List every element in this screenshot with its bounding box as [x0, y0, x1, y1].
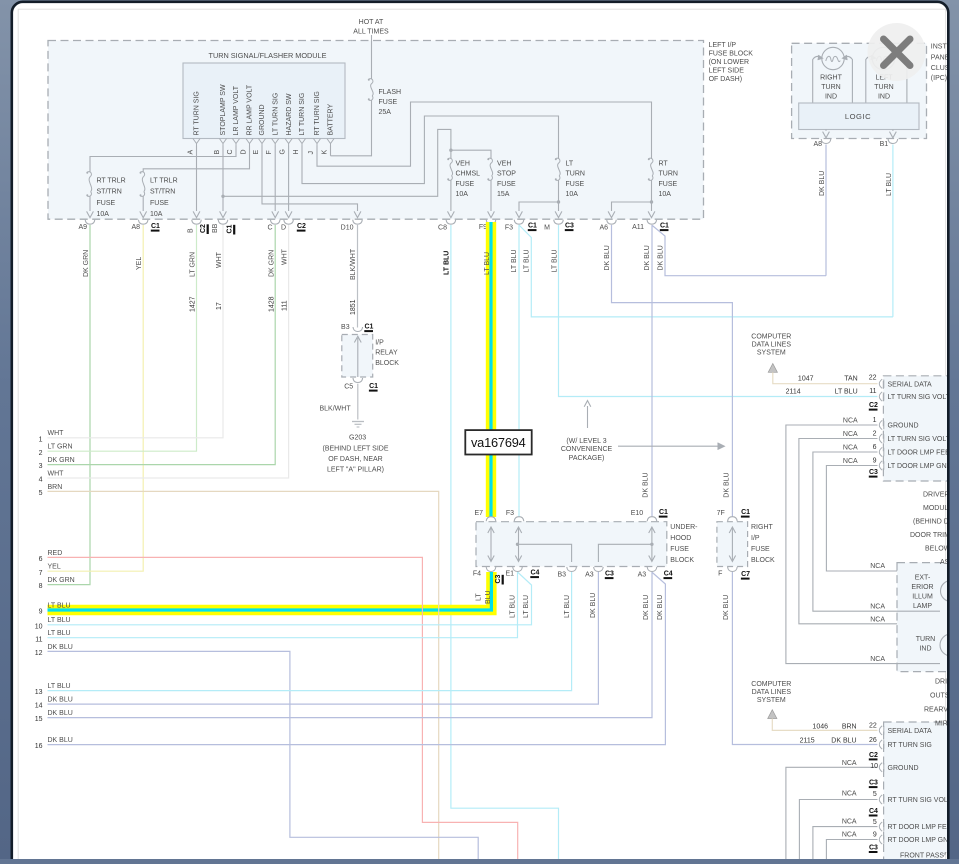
svg-text:LT GRN: LT GRN: [190, 252, 197, 277]
svg-text:1: 1: [873, 417, 877, 424]
svg-text:FUSE: FUSE: [659, 181, 678, 188]
svg-text:GROUND: GROUND: [888, 765, 919, 772]
svg-text:YEL: YEL: [48, 564, 61, 571]
svg-text:LOGIC: LOGIC: [845, 112, 871, 121]
wire BRN 1046: [772, 719, 877, 731]
svg-text:2115: 2115: [800, 738, 815, 745]
svg-text:SERIAL DATA: SERIAL DATA: [888, 728, 933, 735]
svg-text:GROUND: GROUND: [259, 104, 266, 135]
svg-text:LEFT SIDE: LEFT SIDE: [709, 68, 745, 75]
svg-text:1: 1: [39, 436, 43, 443]
ground symbol G203: [352, 421, 364, 423]
wire pin B to connector BB and fuse feed bus: [222, 146, 224, 212]
svg-text:8: 8: [39, 583, 43, 590]
svg-text:M: M: [544, 225, 550, 232]
svg-text:FUSE: FUSE: [456, 181, 475, 188]
wire DK BLU from A11 to underhood E10: [651, 225, 653, 517]
svg-text:RIGHT: RIGHT: [820, 75, 843, 82]
svg-text:DK BLU: DK BLU: [48, 697, 73, 704]
svg-text:NCA: NCA: [843, 445, 858, 452]
fuse VEH CHMSL FUSE 10A: [450, 150, 452, 158]
IPC connector box upper: [883, 376, 953, 481]
svg-text:D10: D10: [341, 225, 354, 232]
svg-text:EXT-: EXT-: [915, 575, 931, 582]
svg-text:DK BLU: DK BLU: [48, 737, 73, 744]
fuse LT TRLR ST/TRN FUSE 10A: [140, 172, 144, 177]
svg-text:DATA LINES: DATA LINES: [752, 689, 792, 696]
svg-text:4: 4: [39, 477, 43, 484]
svg-text:11: 11: [869, 388, 876, 395]
LOGIC box: [799, 103, 919, 130]
svg-text:LT TURN SIG VOLTS: LT TURN SIG VOLTS: [888, 436, 955, 443]
svg-text:BATTERY: BATTERY: [328, 104, 335, 136]
internal link F3-E1 line to B3: [518, 544, 572, 562]
wire pin H to LT TURN fuse: [302, 116, 559, 184]
close button: [868, 23, 926, 81]
svg-text:NCA: NCA: [842, 819, 857, 826]
underhood fuse block dashed box: [476, 522, 667, 567]
svg-text:OF DASH, NEAR: OF DASH, NEAR: [328, 456, 382, 463]
svg-text:5: 5: [39, 490, 43, 497]
svg-text:B3: B3: [341, 324, 350, 331]
svg-text:HOT AT: HOT AT: [359, 19, 384, 26]
svg-text:LT BLU: LT BLU: [510, 595, 517, 618]
wire BLK/WHT relay to ground: [357, 384, 359, 420]
svg-text:C2: C2: [869, 402, 878, 409]
svg-text:12: 12: [35, 650, 43, 657]
svg-text:DOOR TRIM: DOOR TRIM: [910, 532, 950, 539]
wire feed to VEH STOP fuse: [451, 150, 491, 159]
svg-text:OF DASH): OF DASH): [709, 76, 742, 83]
wire BLK/WHT 1851 from D10 to relay block: [357, 225, 359, 328]
svg-text:RT DOOR LMP FEED: RT DOOR LMP FEED: [888, 824, 957, 831]
wire YEL from A8 to row 7: [48, 225, 144, 571]
svg-text:RED: RED: [48, 550, 63, 557]
svg-text:DK BLU: DK BLU: [644, 245, 651, 270]
svg-text:DK BLU: DK BLU: [831, 738, 856, 745]
svg-text:2114: 2114: [786, 389, 801, 396]
svg-text:1851: 1851: [350, 299, 357, 315]
svg-text:7F: 7F: [717, 510, 725, 517]
svg-text:CHMSL: CHMSL: [456, 171, 481, 178]
svg-text:10A: 10A: [456, 191, 469, 198]
svg-text:26: 26: [869, 737, 877, 744]
wire DK BLU from F/C7 to pin 26: [732, 572, 877, 745]
svg-text:DK BLU: DK BLU: [604, 245, 611, 270]
svg-text:WHT: WHT: [48, 430, 65, 437]
connector row hooks: [85, 220, 95, 225]
svg-text:9: 9: [873, 832, 877, 839]
svg-text:10A: 10A: [566, 191, 579, 198]
svg-text:(IPC): (IPC): [931, 75, 947, 82]
wire RT TURN fuse to A6 and A11: [651, 180, 653, 211]
wire RED row 6 continuation off page: [48, 557, 518, 860]
svg-text:C4: C4: [664, 571, 673, 578]
svg-text:1047: 1047: [798, 376, 814, 383]
svg-text:RT DOOR LMP GND: RT DOOR LMP GND: [888, 837, 954, 844]
svg-text:E7: E7: [474, 510, 483, 517]
svg-text:DK BLU: DK BLU: [658, 245, 665, 270]
svg-text:NCA: NCA: [870, 604, 885, 611]
svg-text:TURN: TURN: [874, 84, 893, 91]
svg-text:14: 14: [35, 703, 43, 710]
svg-text:BELOW: BELOW: [925, 545, 951, 552]
wire hot-at-all-times to flash fuse: [371, 35, 373, 79]
wire pin F to connector C: [274, 146, 276, 212]
svg-text:IND: IND: [919, 646, 931, 653]
wire DK BLU row 15 from A3: [48, 572, 653, 718]
svg-text:RT TURN SIG VOLTS: RT TURN SIG VOLTS: [888, 797, 957, 804]
svg-text:C2: C2: [200, 224, 207, 233]
svg-text:RT TRLR: RT TRLR: [97, 177, 126, 184]
svg-text:LEFT I/P: LEFT I/P: [709, 42, 737, 49]
lamp RIGHT TURN IND: [822, 47, 844, 69]
svg-text:NCA: NCA: [843, 458, 858, 465]
svg-text:LT BLU: LT BLU: [48, 617, 71, 624]
va167694 label box: [465, 430, 531, 454]
svg-text:DK GRN: DK GRN: [83, 250, 90, 277]
svg-text:RT: RT: [659, 160, 669, 167]
svg-text:15A: 15A: [497, 191, 510, 198]
svg-text:FUSE: FUSE: [379, 99, 398, 106]
driver mirror module connector box lower: [884, 722, 954, 864]
wire DK BLU row 12 continuation off page: [48, 651, 479, 860]
fuse VEH STOP FUSE 15A: [488, 158, 492, 163]
svg-text:LT BLU: LT BLU: [564, 595, 571, 618]
svg-text:DK BLU: DK BLU: [643, 472, 650, 497]
svg-text:RT TURN SIG: RT TURN SIG: [888, 742, 932, 749]
svg-text:C1: C1: [741, 509, 750, 516]
svg-text:NCA: NCA: [842, 832, 857, 839]
svg-text:LT: LT: [475, 593, 482, 601]
IPC upper connector rows: [879, 379, 882, 388]
svg-text:LT BLU: LT BLU: [484, 252, 491, 275]
wire RT TRLR fuse to A9: [89, 196, 91, 211]
svg-text:11: 11: [35, 636, 42, 643]
svg-text:FUSE: FUSE: [497, 181, 516, 188]
svg-text:10A: 10A: [97, 211, 110, 218]
svg-text:VEH: VEH: [456, 160, 470, 167]
svg-text:BRN: BRN: [48, 484, 63, 491]
svg-text:E: E: [253, 150, 260, 155]
underhood bottom hooks: [486, 567, 496, 572]
svg-text:IND: IND: [825, 94, 837, 101]
svg-text:H: H: [293, 149, 300, 154]
svg-text:C2: C2: [297, 223, 306, 230]
wire stoplamp feed bus B to VEH fuses: [223, 129, 451, 196]
svg-text:B: B: [188, 228, 195, 233]
wire pin E to D10: [262, 146, 358, 212]
wire DK BLU row 16 from C4: [48, 573, 666, 745]
svg-text:DK BLU: DK BLU: [657, 595, 664, 620]
svg-text:VEH: VEH: [497, 160, 511, 167]
svg-text:C5: C5: [344, 384, 353, 391]
svg-text:FLASH: FLASH: [379, 89, 402, 96]
svg-text:LT BLU: LT BLU: [523, 595, 530, 618]
wire RT TRLR fuse feed from pin C: [90, 146, 236, 173]
svg-text:LT TRLR: LT TRLR: [150, 177, 178, 184]
svg-text:WHT: WHT: [48, 470, 65, 477]
wire LT BLU row 13 from B3: [48, 572, 572, 691]
svg-text:LR LAMP VOLT: LR LAMP VOLT: [233, 85, 240, 135]
svg-text:10A: 10A: [150, 211, 163, 218]
wire WHT 111 from D to row 4: [48, 225, 289, 478]
svg-text:LT DOOR LMP FEED: LT DOOR LMP FEED: [888, 450, 955, 457]
svg-text:DK GRN: DK GRN: [269, 250, 276, 277]
wire LT BLU from F3/C1 to underhood F3: [518, 225, 520, 517]
svg-text:LT BLU: LT BLU: [524, 249, 531, 272]
wire TAN 1047: [773, 372, 878, 383]
svg-text:E10: E10: [631, 510, 644, 517]
svg-text:6: 6: [873, 444, 877, 451]
wire LT BLU row 10 from E1: [48, 572, 532, 625]
svg-text:6: 6: [39, 556, 43, 563]
svg-text:F: F: [718, 571, 722, 578]
svg-text:5: 5: [873, 791, 877, 798]
svg-text:9: 9: [39, 609, 43, 616]
svg-text:TAN: TAN: [844, 376, 857, 383]
svg-text:COMPUTER: COMPUTER: [751, 681, 791, 688]
svg-text:GROUND: GROUND: [888, 423, 919, 430]
wire LT BLU from F3/C1 to B1 left turn ind: [519, 225, 893, 317]
svg-text:A: A: [187, 150, 194, 155]
wire pin K to battery bus: [330, 146, 332, 156]
svg-text:TURN: TURN: [659, 171, 678, 178]
wire DK BLU row 14 from A3: [48, 572, 599, 704]
left I/P fuse block dashed box: [48, 41, 704, 220]
svg-text:F4: F4: [473, 571, 481, 578]
svg-text:BLK/WHT: BLK/WHT: [350, 248, 357, 280]
svg-text:C1: C1: [365, 324, 374, 331]
svg-text:F: F: [266, 150, 273, 154]
svg-text:(ON LOWER: (ON LOWER: [709, 59, 749, 66]
highlighted wire core F9 to E7: [489, 222, 492, 517]
svg-text:SERIAL DATA: SERIAL DATA: [888, 381, 933, 388]
wire LT TURN fuse to F3 and M: [558, 180, 560, 211]
svg-text:ERIOR: ERIOR: [911, 584, 933, 591]
svg-text:C1: C1: [660, 223, 669, 230]
svg-text:BRN: BRN: [842, 724, 857, 731]
svg-text:LT BLU: LT BLU: [552, 249, 559, 272]
fuse RT TURN FUSE 10A: [649, 158, 653, 163]
lower module connector rows: [879, 726, 882, 735]
svg-text:10: 10: [35, 623, 43, 630]
svg-text:16: 16: [35, 743, 43, 750]
svg-text:C1: C1: [227, 224, 234, 233]
highlighted wire core F4 to row 9: [48, 572, 492, 610]
turn signal flasher module box: [183, 63, 345, 139]
wire LT GRN 1427 from B to row 2: [48, 225, 197, 451]
svg-text:9: 9: [873, 457, 877, 464]
instrument panel cluster dashed box: [792, 43, 927, 138]
svg-text:DK BLU: DK BLU: [48, 710, 73, 717]
svg-text:A6: A6: [599, 225, 608, 232]
svg-text:LT BLU: LT BLU: [511, 249, 518, 272]
svg-text:TURN: TURN: [916, 636, 935, 643]
svg-text:HOOD: HOOD: [670, 535, 691, 542]
svg-text:ST/TRN: ST/TRN: [150, 189, 175, 196]
svg-text:LT DOOR LMP GND: LT DOOR LMP GND: [888, 463, 952, 470]
wire DK GRN 1428 from C to row 3: [48, 225, 276, 465]
svg-text:A3: A3: [585, 572, 594, 579]
svg-text:DRIVER: DRIVER: [923, 491, 949, 498]
svg-text:111: 111: [282, 300, 289, 311]
svg-text:1428: 1428: [269, 296, 276, 312]
svg-text:RT TURN SIG: RT TURN SIG: [314, 91, 321, 135]
wire LT BLU from B1: [892, 145, 894, 317]
svg-text:DK BLU: DK BLU: [723, 472, 730, 497]
svg-text:BLOCK: BLOCK: [751, 557, 775, 564]
highlighted wire LT BLU from F9 to underhood E7 (yellow halo): [486, 222, 496, 517]
svg-text:C4: C4: [531, 570, 540, 577]
svg-text:DK BLU: DK BLU: [48, 644, 73, 651]
fuse FLASH FUSE 25A: [369, 79, 373, 84]
svg-text:C3: C3: [565, 223, 574, 230]
svg-text:17: 17: [216, 302, 223, 310]
wire LT BLU 2114 from M to IPC pin 11: [559, 225, 878, 397]
svg-text:J: J: [308, 151, 315, 155]
svg-text:DATA LINES: DATA LINES: [752, 342, 792, 349]
svg-text:TURN: TURN: [821, 84, 840, 91]
svg-text:13: 13: [35, 689, 43, 696]
svg-text:BB: BB: [212, 223, 219, 233]
svg-text:ILLUM: ILLUM: [912, 593, 933, 600]
svg-text:RELAY: RELAY: [375, 350, 398, 357]
svg-text:5: 5: [873, 819, 877, 826]
svg-text:(BEHIND LEFT SIDE: (BEHIND LEFT SIDE: [323, 445, 389, 452]
svg-text:DK BLU: DK BLU: [643, 595, 650, 620]
svg-text:UNDER-: UNDER-: [670, 524, 698, 531]
svg-text:C3: C3: [605, 571, 614, 578]
svg-text:COMPUTER: COMPUTER: [751, 334, 791, 341]
svg-text:2: 2: [873, 430, 877, 437]
wire DK BLU from C1 to IPC A8 right turn ind: [652, 226, 826, 276]
wire LT BLU row 11 from E1: [48, 572, 518, 638]
wire DK BLU from A6 to right I/P fuse block 7F: [612, 225, 733, 517]
svg-text:LT TURN SIG: LT TURN SIG: [272, 93, 279, 136]
svg-text:22: 22: [869, 375, 877, 382]
svg-text:C1: C1: [659, 509, 668, 516]
wire pin G to connector D: [288, 146, 290, 212]
svg-text:C3: C3: [869, 780, 878, 787]
svg-text:F3: F3: [505, 225, 513, 232]
svg-text:C2: C2: [869, 752, 878, 759]
wire pin J to RT TURN fuse: [317, 102, 652, 166]
svg-text:B: B: [214, 150, 221, 155]
svg-text:RT TURN SIG: RT TURN SIG: [194, 91, 201, 135]
fuse RT TRLR ST/TRN FUSE 10A: [87, 172, 91, 177]
svg-text:LT TURN SIG VOLTS: LT TURN SIG VOLTS: [888, 394, 955, 401]
svg-text:BLU: BLU: [485, 590, 492, 604]
svg-text:22: 22: [869, 723, 877, 730]
svg-text:D: D: [281, 225, 286, 232]
svg-text:(W/ LEVEL 3: (W/ LEVEL 3: [566, 438, 606, 445]
svg-text:ALL TIMES: ALL TIMES: [353, 28, 389, 35]
svg-text:25A: 25A: [379, 109, 392, 116]
svg-text:C3: C3: [869, 469, 878, 476]
svg-text:FUSE: FUSE: [97, 200, 116, 207]
svg-text:G: G: [279, 149, 286, 154]
svg-text:NCA: NCA: [842, 760, 857, 767]
svg-text:1427: 1427: [190, 296, 197, 312]
svg-text:A8: A8: [131, 224, 140, 231]
svg-text:LAMP: LAMP: [913, 603, 932, 610]
wire DK GRN from A9 to row 8: [48, 225, 91, 585]
svg-text:G203: G203: [349, 435, 366, 442]
svg-text:YEL: YEL: [136, 257, 143, 270]
svg-text:DK GRN: DK GRN: [48, 457, 75, 464]
svg-text:2: 2: [39, 450, 43, 457]
svg-text:DK GRN: DK GRN: [48, 577, 75, 584]
wire LT TRLR fuse to A8: [142, 196, 144, 211]
svg-text:SYSTEM: SYSTEM: [757, 697, 786, 704]
annotation W/ LEVEL 3 CONVENIENCE PACKAGE: [587, 406, 589, 428]
svg-text:B1: B1: [880, 141, 889, 148]
svg-text:E1: E1: [505, 571, 514, 578]
svg-text:C4: C4: [869, 808, 878, 815]
svg-text:C: C: [227, 149, 234, 154]
svg-text:15: 15: [35, 716, 43, 723]
svg-text:A3: A3: [638, 572, 647, 579]
wire BRN row 5 continuation off page: [48, 491, 439, 860]
svg-text:PACKAGE): PACKAGE): [569, 455, 605, 462]
svg-text:10: 10: [870, 763, 878, 770]
right I/P fuse block dashed box: [717, 522, 748, 567]
exterior illum / turn ind lamp box: [897, 563, 959, 672]
svg-text:FUSE: FUSE: [566, 181, 585, 188]
svg-text:10A: 10A: [659, 191, 672, 198]
svg-text:7: 7: [39, 570, 43, 577]
svg-text:LT BLU: LT BLU: [444, 251, 451, 275]
svg-text:C3: C3: [869, 844, 878, 851]
svg-text:FUSE: FUSE: [751, 546, 770, 553]
internal link E10-A3 line to A3: [598, 544, 652, 562]
svg-text:BLOCK: BLOCK: [375, 360, 399, 367]
svg-text:DK BLU: DK BLU: [819, 171, 826, 196]
svg-text:C3: C3: [495, 574, 502, 583]
svg-text:LT GRN: LT GRN: [48, 444, 73, 451]
svg-text:LEFT "A" PILLAR): LEFT "A" PILLAR): [327, 466, 384, 473]
lamp LEFT TURN IND: [872, 47, 894, 69]
wire DK BLU from A8: [825, 145, 827, 276]
svg-text:FUSE: FUSE: [150, 200, 169, 207]
svg-text:LT TURN SIG: LT TURN SIG: [299, 93, 306, 136]
fuse LT TURN FUSE 10A: [556, 158, 560, 163]
svg-text:va167694: va167694: [471, 435, 526, 450]
svg-text:C: C: [267, 225, 272, 232]
svg-text:DK BLU: DK BLU: [590, 593, 597, 618]
svg-text:LT BLU: LT BLU: [835, 389, 858, 396]
svg-text:WHT: WHT: [216, 251, 223, 268]
svg-text:BLOCK: BLOCK: [670, 557, 694, 564]
svg-text:OUTS: OUTS: [930, 693, 950, 700]
svg-text:FUSE: FUSE: [670, 546, 689, 553]
svg-text:WHT: WHT: [282, 248, 289, 265]
svg-text:A9: A9: [78, 224, 87, 231]
svg-text:F3: F3: [506, 510, 514, 517]
svg-text:FUSE BLOCK: FUSE BLOCK: [709, 51, 754, 58]
wire LT TRLR fuse feed from pin D: [143, 146, 249, 173]
NCA wires upper: [786, 425, 940, 664]
svg-text:IND: IND: [878, 94, 890, 101]
wire WHT 17 from BB to row 1: [48, 225, 224, 438]
svg-text:LT BLU: LT BLU: [48, 683, 71, 690]
svg-text:NCA: NCA: [870, 563, 885, 570]
svg-text:NCA: NCA: [843, 431, 858, 438]
svg-text:BLK/WHT: BLK/WHT: [320, 406, 352, 413]
flasher module pin forks and letters: [193, 139, 200, 144]
svg-text:STOPLAMP SW: STOPLAMP SW: [220, 84, 227, 135]
